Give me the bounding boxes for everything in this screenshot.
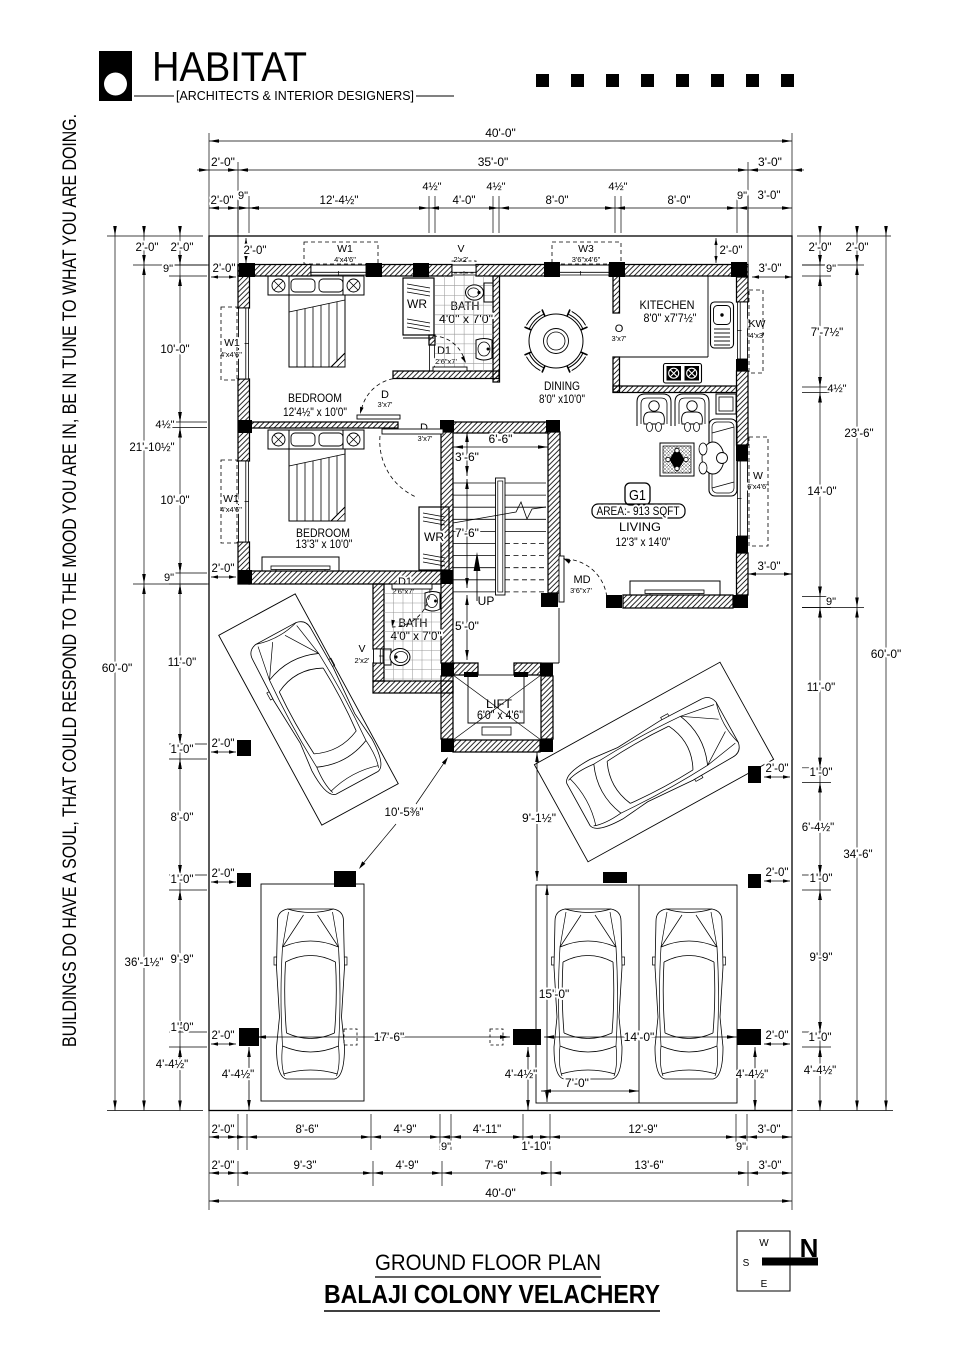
svg-text:9": 9" xyxy=(736,1141,746,1153)
svg-text:V: V xyxy=(457,243,464,255)
svg-text:10'-5⅜": 10'-5⅜" xyxy=(385,807,424,819)
svg-text:2'-0": 2'-0" xyxy=(211,195,234,207)
svg-text:4'-9": 4'-9" xyxy=(394,1124,417,1136)
svg-text:W3: W3 xyxy=(578,243,594,255)
svg-text:GROUND FLOOR PLAN: GROUND FLOOR PLAN xyxy=(375,1250,601,1275)
svg-text:N: N xyxy=(800,1233,819,1263)
svg-text:12'-4½": 12'-4½" xyxy=(320,195,359,207)
svg-text:6'-6": 6'-6" xyxy=(489,432,513,446)
svg-text:21'-10½": 21'-10½" xyxy=(129,442,174,454)
svg-text:6'0" x 4'6": 6'0" x 4'6" xyxy=(477,710,523,722)
svg-text:4'x4'6": 4'x4'6" xyxy=(220,350,242,359)
svg-text:8'0" x10'0": 8'0" x10'0" xyxy=(539,394,585,406)
svg-text:G1: G1 xyxy=(629,487,646,504)
svg-text:12'3" x 14'0": 12'3" x 14'0" xyxy=(616,537,671,549)
svg-text:34'-6": 34'-6" xyxy=(843,849,872,861)
svg-text:6'x4'6": 6'x4'6" xyxy=(747,482,769,491)
svg-text:UP: UP xyxy=(478,594,495,608)
svg-text:W: W xyxy=(753,470,763,482)
svg-text:BUILDINGS DO HAVE A SOUL, THAT: BUILDINGS DO HAVE A SOUL, THAT COULD RES… xyxy=(60,114,81,1047)
svg-text:10'-0": 10'-0" xyxy=(160,495,189,507)
svg-text:S: S xyxy=(743,1258,750,1269)
svg-text:60'-0": 60'-0" xyxy=(102,661,133,675)
svg-text:3'6"x7': 3'6"x7' xyxy=(570,586,592,595)
svg-text:9": 9" xyxy=(826,263,836,275)
svg-text:2'-0": 2'-0" xyxy=(212,738,235,750)
svg-text:KITECHEN: KITECHEN xyxy=(640,298,695,312)
svg-text:2'-0": 2'-0" xyxy=(171,242,194,254)
svg-text:1'-0": 1'-0" xyxy=(171,1022,194,1034)
svg-text:6'-4½": 6'-4½" xyxy=(802,822,835,834)
svg-text:3'-0": 3'-0" xyxy=(759,263,782,275)
svg-text:11'-0": 11'-0" xyxy=(168,657,196,669)
svg-text:D1: D1 xyxy=(437,345,451,357)
svg-text:36'-1½": 36'-1½" xyxy=(125,957,164,969)
svg-text:9": 9" xyxy=(826,596,836,608)
svg-text:2'-0": 2'-0" xyxy=(212,868,235,880)
svg-text:9'-3": 9'-3" xyxy=(294,1160,317,1172)
svg-text:4'-4½": 4'-4½" xyxy=(222,1069,255,1081)
svg-text:2'-0": 2'-0" xyxy=(244,245,267,257)
svg-text:13'-6": 13'-6" xyxy=(634,1160,663,1172)
svg-text:13'3" x 10'0": 13'3" x 10'0" xyxy=(296,539,353,551)
svg-text:9": 9" xyxy=(737,190,747,202)
svg-text:2'-0": 2'-0" xyxy=(212,1124,235,1136)
svg-text:12'-9": 12'-9" xyxy=(628,1124,657,1136)
svg-text:2'-0": 2'-0" xyxy=(846,242,869,254)
svg-text:4'-4½": 4'-4½" xyxy=(804,1065,837,1077)
svg-text:14'-0": 14'-0" xyxy=(807,486,836,498)
svg-text:9'-9": 9'-9" xyxy=(810,952,833,964)
svg-text:4'x4'6": 4'x4'6" xyxy=(220,505,242,514)
svg-text:2'-0": 2'-0" xyxy=(809,242,832,254)
svg-text:11'-0": 11'-0" xyxy=(807,682,835,694)
svg-text:9": 9" xyxy=(441,1141,451,1153)
svg-text:3'-6": 3'-6" xyxy=(455,450,479,464)
svg-text:4'-4½": 4'-4½" xyxy=(736,1069,769,1081)
svg-text:8'-0": 8'-0" xyxy=(546,195,569,207)
svg-text:3'x7': 3'x7' xyxy=(418,434,434,443)
svg-text:2'-0": 2'-0" xyxy=(766,763,789,775)
svg-text:7'-6": 7'-6" xyxy=(485,1160,508,1172)
svg-text:4½": 4½" xyxy=(827,383,846,395)
svg-text:4'x4'6": 4'x4'6" xyxy=(334,255,356,264)
svg-text:1'-0": 1'-0" xyxy=(171,874,194,886)
svg-text:W: W xyxy=(759,1238,769,1249)
svg-text:MD: MD xyxy=(573,574,590,586)
svg-text:4'-4½": 4'-4½" xyxy=(156,1059,189,1071)
svg-text:4½": 4½" xyxy=(608,181,627,193)
svg-text:10'-0": 10'-0" xyxy=(160,344,189,356)
svg-text:9": 9" xyxy=(164,572,174,584)
svg-text:4½": 4½" xyxy=(486,181,505,193)
svg-text:2'-0": 2'-0" xyxy=(212,1160,235,1172)
svg-text:3'-0": 3'-0" xyxy=(758,1124,781,1136)
svg-text:2'-0": 2'-0" xyxy=(211,155,235,169)
svg-text:8'-6": 8'-6" xyxy=(296,1124,319,1136)
svg-text:2'-0": 2'-0" xyxy=(212,1030,235,1042)
svg-text:2'-0": 2'-0" xyxy=(766,867,789,879)
svg-text:3'-0": 3'-0" xyxy=(758,155,782,169)
svg-text:3'x7': 3'x7' xyxy=(612,334,628,343)
svg-text:HABITAT: HABITAT xyxy=(152,43,307,90)
svg-text:4'-11": 4'-11" xyxy=(473,1124,501,1136)
svg-text:7'-0": 7'-0" xyxy=(565,1076,589,1090)
svg-text:1'-0": 1'-0" xyxy=(810,873,833,885)
svg-text:9'-9": 9'-9" xyxy=(171,954,194,966)
svg-text:9": 9" xyxy=(238,190,248,202)
svg-text:2'-0": 2'-0" xyxy=(136,242,159,254)
svg-text:7'-6": 7'-6" xyxy=(455,526,479,540)
svg-text:4½": 4½" xyxy=(155,419,174,431)
svg-text:3'-0": 3'-0" xyxy=(758,561,781,573)
svg-text:3'6"x4'6": 3'6"x4'6" xyxy=(572,255,601,264)
svg-text:DINING: DINING xyxy=(544,379,580,393)
svg-text:2'-0": 2'-0" xyxy=(766,1030,789,1042)
svg-text:4'-9": 4'-9" xyxy=(396,1160,419,1172)
svg-text:1'-0": 1'-0" xyxy=(171,744,194,756)
svg-text:LIVING: LIVING xyxy=(619,520,661,534)
svg-text:8'-0": 8'-0" xyxy=(171,812,194,824)
svg-text:WR: WR xyxy=(407,299,427,311)
svg-text:7'-7½": 7'-7½" xyxy=(811,327,844,339)
svg-text:W1: W1 xyxy=(224,337,240,349)
svg-text:BATH: BATH xyxy=(451,299,480,313)
svg-text:12'4½" x 10'0": 12'4½" x 10'0" xyxy=(283,407,347,419)
svg-text:8'0" x7'7½": 8'0" x7'7½" xyxy=(644,313,697,325)
svg-text:3'-0": 3'-0" xyxy=(759,1160,782,1172)
svg-text:4½": 4½" xyxy=(422,181,441,193)
svg-text:4'0" x 7'0": 4'0" x 7'0" xyxy=(439,314,493,326)
svg-text:2'-0": 2'-0" xyxy=(720,245,743,257)
svg-text:40'-0": 40'-0" xyxy=(485,126,516,140)
svg-text:1'-10": 1'-10" xyxy=(521,1141,550,1153)
svg-text:14'-0": 14'-0" xyxy=(624,1030,655,1044)
svg-text:40'-0": 40'-0" xyxy=(485,1186,516,1200)
svg-text:[ARCHITECTS & INTERIOR DESIGNE: [ARCHITECTS & INTERIOR DESIGNERS] xyxy=(176,89,414,103)
svg-text:E: E xyxy=(761,1279,768,1290)
svg-text:2'-0": 2'-0" xyxy=(212,563,235,575)
svg-text:9'-1½": 9'-1½" xyxy=(522,811,556,825)
svg-text:8'-0": 8'-0" xyxy=(668,195,691,207)
svg-text:2'-0": 2'-0" xyxy=(213,263,236,275)
svg-text:V: V xyxy=(358,643,365,655)
svg-text:3'-0": 3'-0" xyxy=(758,190,781,202)
svg-text:1'-0": 1'-0" xyxy=(809,1032,832,1044)
svg-text:WR: WR xyxy=(424,532,444,544)
svg-text:W1: W1 xyxy=(337,243,353,255)
svg-text:23'-6": 23'-6" xyxy=(844,428,873,440)
svg-text:AREA:- 913 SQFT: AREA:- 913 SQFT xyxy=(597,506,680,518)
svg-text:3'x7': 3'x7' xyxy=(378,400,394,409)
svg-text:4'-4½": 4'-4½" xyxy=(505,1069,538,1081)
svg-text:15'-0": 15'-0" xyxy=(539,987,570,1001)
svg-text:5'-0": 5'-0" xyxy=(455,619,479,633)
svg-text:BEDROOM: BEDROOM xyxy=(288,391,342,405)
svg-text:17'-6": 17'-6" xyxy=(374,1030,405,1044)
svg-text:BEDROOM: BEDROOM xyxy=(296,526,350,540)
svg-text:4'-0": 4'-0" xyxy=(453,195,476,207)
svg-text:9": 9" xyxy=(163,263,173,275)
svg-text:35'-0": 35'-0" xyxy=(478,155,509,169)
svg-text:BALAJI COLONY VELACHERY: BALAJI COLONY VELACHERY xyxy=(324,1279,660,1309)
svg-text:2'x2': 2'x2' xyxy=(355,656,371,665)
svg-text:2'6"x7': 2'6"x7' xyxy=(435,357,457,366)
svg-text:2'x2': 2'x2' xyxy=(454,255,470,264)
svg-text:1'-0": 1'-0" xyxy=(810,767,833,779)
svg-text:60'-0": 60'-0" xyxy=(871,647,902,661)
